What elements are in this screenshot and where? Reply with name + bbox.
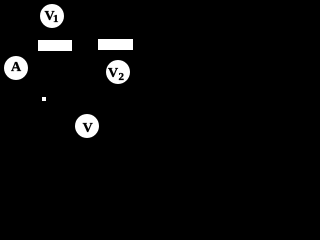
voltmeter V2 circle xyxy=(106,60,130,84)
ammeter A circle xyxy=(4,56,28,80)
voltmeter V2 label V xyxy=(108,67,118,81)
ammeter A label xyxy=(11,61,21,75)
voltmeter V1 label V xyxy=(45,10,55,24)
junction node dot xyxy=(42,97,46,101)
resistor R1 xyxy=(38,40,72,51)
voltmeter V1 label subscript 1 xyxy=(53,14,59,25)
resistor R2 xyxy=(98,39,132,50)
voltmeter V2 label subscript 2 xyxy=(119,72,125,83)
voltmeter V label xyxy=(83,122,93,136)
voltmeter V circle xyxy=(75,114,99,138)
voltmeter V1 circle xyxy=(40,4,64,28)
